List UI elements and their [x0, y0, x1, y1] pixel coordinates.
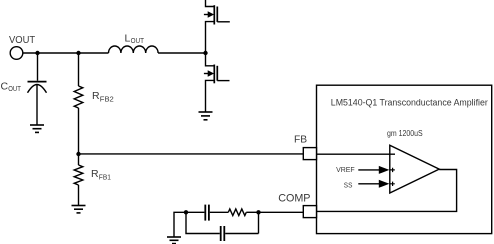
wire VREF arrow — [358, 166, 389, 174]
ground (RFB1) — [72, 206, 86, 213]
svg-text:FB: FB — [294, 133, 307, 145]
transistor Q2 low-side NMOS — [204, 53, 230, 112]
wire VOUT rail (terminal to inductor) — [23, 52, 109, 54]
wire op-amp output to COMP — [317, 170, 457, 212]
svg-text:VOUT: VOUT — [9, 34, 36, 46]
node FB tap — [76, 152, 80, 156]
svg-text:gm 1200uS: gm 1200uS — [387, 129, 423, 138]
pin FB — [303, 148, 316, 160]
svg-text:OUT: OUT — [131, 36, 145, 45]
node divider tap — [76, 51, 80, 55]
svg-text:SS: SS — [344, 180, 353, 189]
svg-text:L: L — [125, 33, 131, 45]
svg-text:FB1: FB1 — [99, 172, 111, 181]
ground (comp network) — [167, 237, 181, 244]
pin COMP — [303, 206, 316, 218]
resistor RFB1 — [74, 154, 83, 206]
wire COMP (pin to compensation network) — [259, 211, 304, 213]
svg-text:OUT: OUT — [8, 84, 21, 93]
wire FB internal — [317, 153, 396, 155]
terminal VOUT — [10, 47, 23, 60]
wire FB (divider to FB pin) — [79, 153, 304, 155]
node comp right junction — [256, 210, 260, 214]
capacitor C2 (comp parallel) — [186, 212, 259, 241]
wire comp top rail right — [246, 211, 258, 213]
inductor LOUT — [109, 46, 159, 53]
transistor Q1 high-side NMOS — [204, 0, 230, 53]
node COUT tap — [35, 51, 39, 55]
IC boundary LM5140-Q1 — [317, 85, 492, 233]
svg-text:R: R — [92, 90, 100, 102]
node comp left junction — [184, 210, 188, 214]
svg-text:FB2: FB2 — [100, 94, 114, 103]
node SW — [203, 51, 207, 55]
svg-text:R: R — [91, 168, 99, 180]
svg-text:LM5140-Q1 Transconductance Am: LM5140-Q1 Transconductance Amplifier — [331, 97, 488, 107]
resistor R1 (comp) — [228, 209, 246, 216]
ground (COUT) — [30, 125, 44, 132]
ground (Q2 source) — [199, 112, 213, 120]
wire comp left to ground — [174, 212, 186, 237]
svg-text:VREF: VREF — [336, 165, 355, 174]
resistor RFB2 — [74, 53, 83, 154]
wire inductor to switch node — [158, 52, 205, 54]
capacitor COUT — [28, 53, 47, 125]
op-amp U1 transconductance amplifier — [390, 145, 439, 193]
svg-text:COMP: COMP — [278, 193, 310, 205]
capacitor C1 (comp series) — [186, 205, 228, 221]
svg-text:C: C — [1, 81, 9, 93]
wire SS arrow — [358, 180, 389, 188]
